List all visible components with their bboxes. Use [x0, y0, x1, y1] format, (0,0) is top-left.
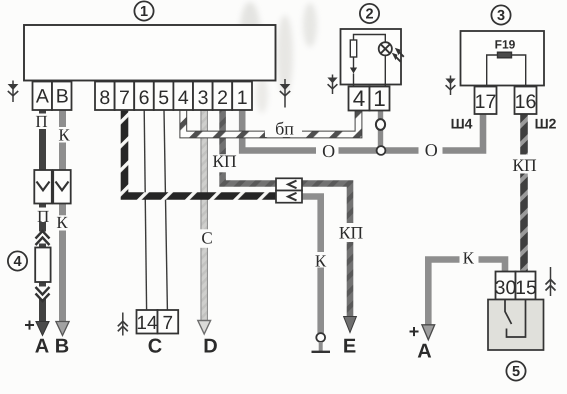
unit 1 main box: [24, 25, 276, 81]
svg-text:14: 14: [136, 313, 158, 334]
svg-text:К: К: [56, 213, 68, 232]
svg-text:2: 2: [365, 7, 373, 23]
svg-text:+: +: [24, 315, 35, 335]
svg-text:КП: КП: [339, 223, 364, 243]
svg-text:А: А: [36, 86, 49, 108]
diode arrow inside unit 2: [353, 57, 355, 68]
terminal 1 of unit 1: [232, 82, 252, 111]
svg-text:С: С: [201, 228, 212, 247]
svg-text:С: С: [148, 336, 162, 358]
svg-text:17: 17: [475, 91, 497, 113]
svg-text:О: О: [425, 140, 438, 160]
ground bar under К wire: [312, 351, 331, 353]
terminal 2 of unit 1: [213, 82, 233, 111]
ground left of connector C: [118, 313, 128, 336]
terminal 4 of unit 2: [349, 87, 370, 111]
svg-text:5: 5: [158, 87, 169, 109]
circle node on К wire: [316, 333, 325, 342]
svg-text:2: 2: [217, 87, 228, 109]
unit 3 box (fuse block): [461, 31, 545, 86]
lamp symbol inside unit 2: [379, 42, 392, 55]
svg-text:3: 3: [198, 87, 209, 109]
svg-text:16: 16: [515, 91, 537, 113]
svg-text:1: 1: [237, 87, 248, 109]
bullet connector under pin 1: [376, 119, 385, 130]
arrowhead E: [344, 317, 357, 333]
wire бп from terminal 4 to unit 2: [183, 110, 358, 135]
terminal A of unit 1: [33, 82, 53, 111]
svg-text:К: К: [463, 248, 475, 267]
svg-text:П: П: [37, 207, 49, 226]
callout circle 2: [360, 4, 379, 23]
callout circle 1: [134, 1, 153, 20]
svg-text:А: А: [417, 340, 431, 362]
svg-text:П: П: [35, 112, 47, 131]
callout circle 3: [491, 5, 510, 24]
svg-text:бп: бп: [275, 118, 294, 138]
light arrows at lamp: [395, 56, 401, 62]
svg-text:4: 4: [13, 254, 21, 270]
svg-text:Ш2: Ш2: [535, 115, 557, 131]
wire О from terminal 1 to fuse 17: [242, 110, 483, 151]
mid connector pair (horizontal): [276, 178, 302, 190]
white gaps for wire labels: [33, 114, 540, 268]
ground left of unit 1: [8, 81, 19, 103]
svg-text:КП: КП: [512, 155, 537, 175]
svg-text:5: 5: [512, 364, 520, 380]
wire stub below unit 2 pin 1: [378, 110, 383, 119]
resistor inside unit 2: [354, 35, 386, 43]
svg-text:Е: Е: [343, 336, 356, 358]
svg-text:6: 6: [139, 87, 150, 109]
terminal 4 of unit 1: [173, 82, 193, 111]
svg-text:4: 4: [353, 86, 366, 111]
wire from terminal 7 (black-white striped): [125, 110, 277, 196]
junction node on О wire: [377, 146, 386, 155]
connector pair on wires П and К: [34, 170, 52, 204]
svg-text:D: D: [203, 336, 217, 358]
svg-text:15: 15: [515, 277, 537, 299]
double chevron down: [36, 287, 50, 301]
svg-text:О: О: [322, 141, 335, 161]
terminal 3 of unit 1: [193, 82, 213, 111]
component 4 (resistive element on wire П): [8, 251, 27, 270]
wire С from terminal 3 down to D: [200, 110, 208, 322]
ground left of unit 3: [445, 76, 455, 96]
svg-text:В: В: [56, 86, 69, 108]
svg-text:7: 7: [119, 87, 130, 109]
svg-text:8: 8: [99, 87, 110, 109]
svg-text:F19: F19: [495, 38, 516, 52]
svg-text:К: К: [58, 125, 70, 144]
svg-text:1: 1: [140, 4, 148, 20]
svg-text:1: 1: [373, 86, 386, 111]
svg-text:+: +: [409, 322, 420, 342]
ignition switch terminal 30: [496, 272, 516, 300]
arrowhead A bottom right: [422, 325, 435, 340]
wire Е from connector to arrow E: [302, 184, 350, 319]
arrowhead B bottom left: [56, 322, 69, 336]
terminal 17 of unit 3: [475, 87, 497, 115]
double chevron up: [36, 231, 50, 245]
arrowhead D: [198, 321, 211, 335]
svg-text:А: А: [35, 335, 49, 357]
body of component 4: [35, 248, 50, 283]
ground left of unit 2: [327, 75, 337, 95]
switch contact: [505, 300, 512, 325]
terminal 6 of unit 1: [134, 82, 154, 111]
wire from terminal 6 (thin): [144, 110, 146, 310]
wire КП from terminal 2 to connector: [223, 110, 276, 184]
svg-text:7: 7: [163, 313, 174, 334]
svg-text:3: 3: [497, 8, 505, 24]
ground right of unit 1: [280, 79, 291, 108]
wire К to ignition switch terminal 30: [428, 260, 505, 327]
callout circle 5: [506, 361, 525, 380]
ground right of ignition switch: [546, 267, 556, 296]
ignition switch body 5: [488, 300, 544, 351]
connector C block (14 / 7): [137, 310, 158, 334]
arrowhead A bottom left: [36, 322, 49, 336]
terminal 7 of unit 1: [115, 82, 135, 111]
wire from terminal 5 (thin): [164, 110, 167, 310]
unit 2 box (indicator lamp): [341, 29, 402, 85]
svg-text:4: 4: [178, 87, 189, 109]
wire К from terminal B: [59, 110, 66, 323]
terminal B of unit 1: [52, 82, 72, 111]
svg-text:30: 30: [495, 277, 517, 299]
svg-text:Ш4: Ш4: [451, 115, 473, 131]
terminal 5 of unit 1: [154, 82, 174, 111]
svg-text:К: К: [315, 251, 327, 270]
wire П from terminal A: [39, 110, 46, 323]
terminal 1 of unit 2: [370, 87, 390, 111]
wire КП from fuse 16 to terminal 15: [520, 114, 528, 272]
terminal 16 of unit 3: [515, 87, 537, 115]
wire К from connector to ground: [302, 197, 321, 334]
ignition switch terminal 15: [516, 272, 536, 300]
svg-text:В: В: [55, 335, 69, 357]
terminal 8 of unit 1: [95, 82, 115, 111]
svg-text:КП: КП: [212, 151, 237, 171]
